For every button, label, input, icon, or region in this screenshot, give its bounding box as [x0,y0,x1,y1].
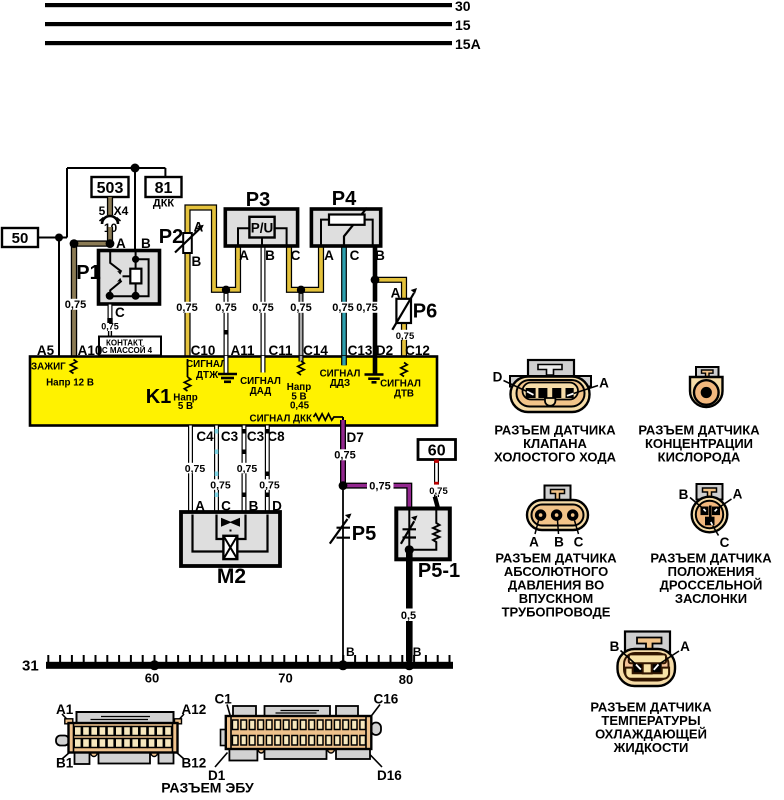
svg-text:C: C [574,535,584,550]
svg-text:ДДЗ: ДДЗ [330,378,350,389]
wire C4 to M2 pin A (white) [188,426,193,513]
P3 P/U box [249,217,274,238]
junction at frame top [131,164,140,173]
TPS pin C [705,517,715,526]
O2 sensor connector body [690,377,723,407]
svg-text:M2: M2 [217,565,246,588]
TPS pin A [712,507,720,516]
MAP sensor connector tab [545,486,571,502]
wire C end cap [107,318,112,323]
label 0,75 C14 [289,302,314,313]
svg-text:31: 31 [22,658,39,675]
wire relay pin C (white) [108,305,113,319]
svg-text:P5: P5 [352,523,376,545]
svg-text:D: D [493,370,503,385]
svg-text:A5: A5 [37,343,55,358]
svg-text:C11: C11 [268,343,293,358]
wire D7 (purple) [340,420,346,486]
coolant temp pin B [633,663,643,673]
ECU connector C/D bumps [258,749,335,753]
node 503 box [92,177,129,197]
svg-text:ЗАЖИГ: ЗАЖИГ [31,362,66,373]
wire D2 stub inside band [373,356,378,375]
motor M2 box [181,512,280,566]
svg-text:P1: P1 [76,262,100,284]
coolant temp slot top bar [629,654,666,663]
TPS key bar [709,506,712,518]
wire C13 stub inside band [341,356,347,365]
junction bus B1 [338,660,348,670]
wire D2 to P6 (yellow) [375,280,404,300]
coolant temp slot bottom boat [625,668,669,679]
svg-text:C: C [291,248,301,263]
junction P3C/C14 [297,286,305,294]
TPS connector tab [697,484,723,500]
ground bus 31 [46,662,453,669]
svg-text:0,75: 0,75 [176,302,197,314]
M2 crossed box [223,536,237,559]
power bus 15A [45,41,452,45]
fuse X4 arc [102,216,118,224]
label 0,5 [398,609,420,622]
svg-text:0,75: 0,75 [185,463,206,475]
idle valve connector body [511,377,590,413]
wire C8 to M2 pin D (white/black) [265,426,270,513]
svg-text:A: A [239,248,249,263]
TPS pin B [701,507,709,516]
idle valve leader D [504,381,528,392]
svg-text:ТРУБОПРОВОДЕ: ТРУБОПРОВОДЕ [502,605,611,620]
coolant temp pin A [652,663,662,673]
svg-text:60: 60 [145,671,159,686]
dashed link to contact box [109,331,112,336]
sensor P6 (variable resistor) [396,299,411,323]
power bus 30 [45,3,452,7]
wire junction to P5-1 (purple) [343,483,367,489]
coolant temp connector tab [625,632,670,653]
ECU connector C/D pins row C [232,720,365,730]
label 0,75 D7 [333,449,358,460]
wire 60 to P5-1 (white/red) [434,460,439,498]
ECU connector C/D left nub [221,730,227,746]
ground at A11 [218,374,237,382]
svg-text:A: A [680,639,690,654]
svg-text:C8: C8 [267,429,285,444]
svg-text:C4: C4 [196,429,214,444]
svg-text:0,75: 0,75 [332,302,353,314]
wire C11 stub inside band [261,356,266,373]
MAP leaders [535,521,579,535]
label 0,75 D2 [355,302,380,313]
sensor P5-1 box [396,509,450,560]
junction D7/P5 [339,481,348,490]
coolant temp slot stem [643,662,652,674]
relay contact arrows [117,271,122,282]
svg-text:0,75: 0,75 [65,299,86,311]
svg-text:Напр 12 В: Напр 12 В [46,378,94,389]
ECU block K1 band [30,357,437,426]
relay bottom-right node [132,292,140,300]
label 0,75 C10 [175,302,200,313]
junction brown at A10 [70,239,79,248]
sensor P5 symbol [337,528,351,538]
svg-text:СИГНАЛ ДКК: СИГНАЛ ДКК [250,414,312,425]
svg-text:C16: C16 [374,692,399,707]
ECU connector A/B pins row B [74,739,171,748]
wire C3b to M2 pin B (white/black) [242,426,247,513]
label 0,75 C3b [236,463,259,474]
svg-text:0,75: 0,75 [215,302,236,314]
svg-text:С МАССОЙ 4: С МАССОЙ 4 [102,346,153,355]
svg-text:81: 81 [155,180,173,197]
ECU connector A/B left tab [65,719,73,724]
svg-text:0,75: 0,75 [210,480,231,492]
label 0,75 C11 [251,302,275,313]
ECU connector A/B body [69,723,178,753]
coolant temp leader B [621,651,637,665]
contact-with-ground box [99,337,161,356]
O2 sensor connector ring [694,380,719,405]
svg-text:C3: C3 [247,429,265,444]
svg-text:P6: P6 [413,301,437,323]
wire P4 pin C to C13 (teal) [341,246,347,365]
wire C10 inside band [187,359,189,377]
junction bus 60 [150,660,160,670]
wire fuse to relay pin A (brown) [107,227,113,244]
svg-text:СИГНАЛ: СИГНАЛ [186,359,227,370]
junction at 50/A5 [55,234,63,242]
ECU connector A/B feet [75,753,90,765]
wire C14 (grey) [299,290,304,361]
svg-text:ЖИДКОСТИ: ЖИДКОСТИ [613,740,689,755]
node 81 box [146,177,182,197]
ECU connector C/D leader D1 [215,753,228,768]
wire A11 (white) from junction to band [224,290,229,373]
svg-text:0,75: 0,75 [290,302,311,314]
svg-text:60: 60 [428,443,446,460]
svg-text:B: B [554,535,564,550]
label 0,75 C3 [209,479,232,490]
svg-text:B: B [610,639,620,654]
junction relay pin A [106,239,115,248]
ECU connector A/B latch [56,736,69,746]
svg-text:P/U: P/U [251,221,274,236]
relay bottom-left node [106,292,114,300]
ECU connector A/B leader A1 [62,714,71,724]
svg-text:80: 80 [399,672,413,687]
svg-text:0,45: 0,45 [290,401,310,412]
svg-text:C: C [115,305,125,320]
svg-text:0,75: 0,75 [237,463,258,475]
bus 31 ticks [48,655,449,662]
TPS connector inner [696,501,723,528]
svg-text:C13: C13 [348,343,373,358]
ECU connector A/B top cap [77,712,174,724]
svg-text:A: A [194,220,204,235]
TPS leader B [690,498,703,509]
relay node B [132,256,139,263]
relay coil [130,269,141,284]
svg-text:КИСЛОРОДА: КИСЛОРОДА [658,450,741,465]
svg-text:A11: A11 [230,343,255,358]
junction D2/P6 [371,275,380,284]
idle valve leader A [574,386,599,394]
svg-text:C: C [720,535,730,550]
svg-text:C3: C3 [221,429,239,444]
ECU connector A/B right tab [175,719,182,724]
svg-text:C10: C10 [191,343,216,358]
svg-text:C1: C1 [215,692,233,707]
wire A11 stub inside band [224,356,229,373]
MAP sensor connector body [527,500,588,530]
svg-text:C12: C12 [405,343,430,358]
svg-text:A10: A10 [78,343,103,358]
label 0,75 brown wire [63,299,87,310]
svg-text:0,5: 0,5 [401,610,416,622]
relay P1 internals [110,252,149,296]
svg-text:B1: B1 [56,756,74,771]
wire DKK to D7 [342,417,344,421]
P4 internals [321,220,373,246]
svg-text:0,75: 0,75 [334,450,355,462]
svg-text:A: A [529,535,539,550]
P5-1 internals right (resistor) [409,509,439,550]
svg-text:C: C [350,248,360,263]
idle valve connector flange [510,376,591,387]
ECU connector A/B bumps [91,753,158,757]
label 0,75 A11 [214,302,239,313]
node 50 box [2,228,38,247]
svg-text:A: A [599,376,609,391]
svg-text:ДТЖ: ДТЖ [196,370,218,381]
svg-text:B: B [346,645,355,659]
svg-text:A: A [391,286,401,301]
P5-1 internals left (variable) [408,509,410,550]
sensor P4 box [311,209,380,246]
svg-text:K1: K1 [146,386,172,408]
svg-text:0,75: 0,75 [356,302,377,314]
M2 internals [193,515,268,552]
svg-text:B12: B12 [182,756,207,771]
svg-text:5 В: 5 В [178,401,193,412]
svg-text:B: B [192,254,202,269]
svg-text:0,75: 0,75 [369,481,390,493]
resistor symbol C14 [298,361,304,375]
wire black stub into P5-1 [435,497,438,509]
TPS connector body [692,497,728,533]
label 0,75 60-wire [428,485,449,495]
svg-text:0,75: 0,75 [252,302,273,314]
ECU connector C/D pins row D [232,736,365,746]
resistor symbol A10 [70,360,76,374]
idle valve connector slot [523,383,579,400]
ECU connector C/D feet [229,749,257,761]
ECU connector C/D leader D16 [368,752,383,767]
wire P2 to P3 pin A (yellow) [188,208,239,290]
wire A10 brown horizontal and down [74,244,110,357]
sensor P2 (variable resistor) [183,233,192,253]
sensor P3 box [225,209,297,246]
relay P1 box [99,251,160,305]
MAP pin C [567,509,578,520]
svg-text:30: 30 [455,0,471,14]
MAP pin B [551,509,562,520]
svg-text:D2: D2 [376,343,393,358]
coolant temp connector body [618,649,676,686]
wire P2 to C10 (yellow) [184,253,190,357]
O2 sensor connector tab [696,367,719,377]
junction bus B2 [404,660,414,670]
power bus 15 [45,22,452,26]
svg-text:5: 5 [99,204,106,218]
ECU connector A/B pins row A [74,727,171,736]
node 60 box [418,440,456,460]
O2 sensor connector pin [701,387,712,398]
svg-text:P4: P4 [332,188,357,210]
ECU connector C/D top tabs [233,706,256,718]
svg-text:ЗАСЛОНКИ: ЗАСЛОНКИ [675,591,747,606]
wire P3 pin C to P4 pin A (yellow) [289,246,321,290]
svg-text:A: A [324,248,334,263]
svg-text:B: B [679,487,689,502]
A11 wire mark [224,330,228,335]
P5-1 junction [405,545,414,554]
ECU connector C/D leader C1 [227,705,232,722]
svg-text:РАЗЪЕМ ЭБУ: РАЗЪЕМ ЭБУ [161,780,254,796]
svg-text:ДАД: ДАД [250,386,271,397]
P4 resistor [329,215,365,225]
wire P5-1 to bus (black 0,5) [406,550,413,661]
svg-text:P2: P2 [159,226,183,248]
ECU connector A/B leader B12 [176,752,184,759]
ECU connector A/B leader A12 [176,714,185,724]
svg-text:15A: 15A [455,36,481,52]
svg-text:70: 70 [278,671,292,686]
resistor symbol DKK horizontal [314,414,344,420]
svg-text:A12: A12 [182,702,207,717]
label 0,75 C4 [184,463,207,474]
P3 internals [238,228,287,246]
svg-text:P5-1: P5-1 [418,560,460,582]
MAP pin A [535,509,546,520]
label 0,75 C12 [395,330,415,340]
svg-text:P3: P3 [246,189,270,211]
M2 valve bowtie [222,519,240,527]
svg-text:C14: C14 [303,343,328,358]
svg-text:0,75: 0,75 [396,331,415,342]
svg-text:503: 503 [97,180,124,197]
ground at D2 [365,375,384,383]
svg-text:ДТВ: ДТВ [394,389,414,400]
wire from node 50 to A5 and frame [38,168,165,357]
svg-text:D16: D16 [377,768,402,783]
resistor symbol C12 [401,363,407,377]
svg-text:15: 15 [455,17,471,33]
junction P2/A11 [222,286,230,294]
svg-text:50: 50 [12,230,29,247]
svg-text:0,75: 0,75 [259,480,280,492]
wire P3 pin B to C11 (white) [261,246,266,373]
ECU connector C/D right latch [371,723,381,736]
svg-text:0,75: 0,75 [429,486,448,497]
svg-text:ХОЛОСТОГО ХОДА: ХОЛОСТОГО ХОДА [494,450,617,465]
idle valve pins [526,388,536,398]
label 0,75 C8 [258,479,281,490]
ECU connector A/B leader B1 [62,752,70,759]
ECU connector C/D body [226,716,371,749]
ECU connector C/D leader C16 [369,705,380,720]
label 0,75 C13 [331,302,356,313]
wire C3 to M2 pin C (white/blue) [214,426,219,513]
resistor symbol C10 [184,377,190,391]
coolant temp connector inner [624,653,669,681]
coolant temp leader A [659,651,680,665]
svg-text:0,75: 0,75 [101,322,119,332]
svg-text:ДКК: ДКК [153,198,175,210]
svg-text:D7: D7 [347,430,364,445]
svg-text:A1: A1 [56,702,74,717]
svg-text:B: B [375,248,385,263]
wire C14 stub inside band [299,356,304,362]
wire P4 pin B to D2 (black) [373,246,378,375]
svg-text:B: B [265,248,275,263]
svg-text:X4: X4 [114,204,129,218]
TPS leader C [713,526,719,536]
idle valve connector inner [517,380,585,407]
idle valve connector tab [528,360,574,377]
wire 503 to fuse X4 (brown) [107,197,113,215]
MAP sensor connector inner [532,505,584,526]
wire P6 to C12 (yellow) [401,323,407,357]
TPS leader A [718,499,732,509]
wire P5 to bus (thin) [342,486,344,661]
svg-text:A: A [733,487,743,502]
